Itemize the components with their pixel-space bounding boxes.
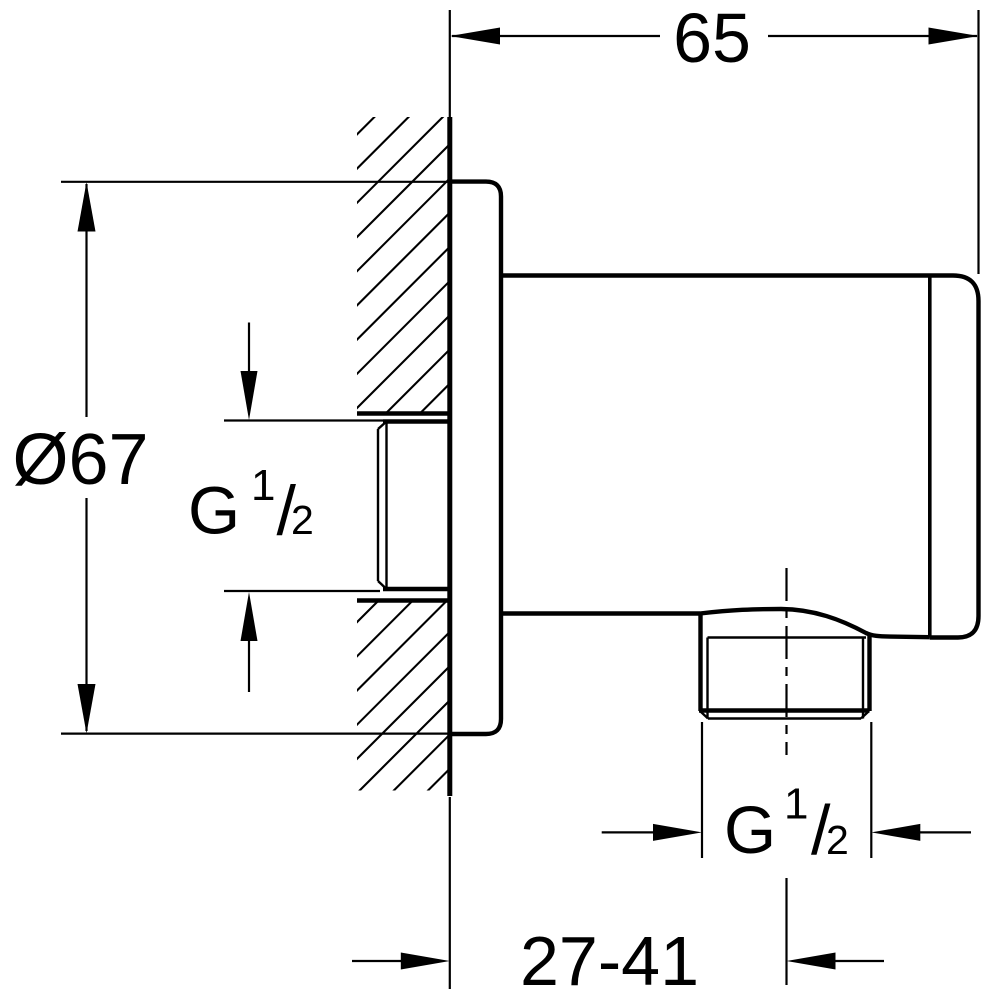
svg-text:1: 1 [251, 461, 275, 510]
svg-text:27-41: 27-41 [520, 922, 699, 1000]
svg-text:65: 65 [673, 0, 751, 77]
svg-text:1: 1 [784, 780, 808, 829]
svg-text:G: G [724, 793, 776, 868]
svg-text:2: 2 [826, 817, 849, 863]
svg-text:G: G [188, 474, 240, 549]
svg-text:2: 2 [291, 497, 314, 543]
svg-text:Ø67: Ø67 [12, 420, 148, 500]
